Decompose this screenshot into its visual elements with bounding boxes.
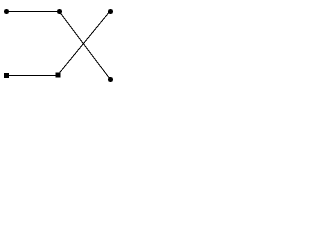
node D (bottom-left square node) <box>4 73 9 78</box>
wire B-F (diagonal edge) <box>59 11 110 79</box>
wire D-E (bottom horizontal edge) <box>7 75 59 77</box>
node B (top-middle round node) <box>57 9 62 14</box>
node E (bottom-middle square node) <box>56 73 61 78</box>
node F (bottom-right round node) <box>108 77 113 82</box>
node A (top-left round node) <box>4 9 9 14</box>
wire C-E (diagonal edge) <box>57 11 109 75</box>
wire A-B (top horizontal edge) <box>7 11 60 13</box>
node C (top-right round node) <box>108 9 113 14</box>
background <box>0 0 117 84</box>
